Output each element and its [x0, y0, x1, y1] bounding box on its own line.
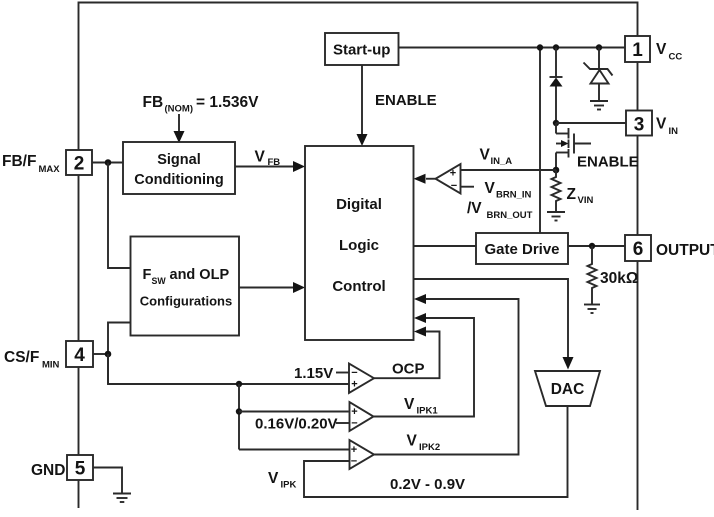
svg-text:Configurations: Configurations	[140, 294, 232, 309]
svg-text:Digital: Digital	[336, 196, 382, 213]
svg-text:ENABLE: ENABLE	[577, 154, 639, 171]
svg-text:IPK1: IPK1	[417, 406, 439, 417]
svg-text:OCP: OCP	[392, 361, 425, 378]
svg-text:6: 6	[633, 239, 644, 260]
svg-text:1.15V: 1.15V	[294, 365, 333, 382]
node: output junction dot	[589, 243, 595, 249]
svg-text:Logic: Logic	[339, 237, 379, 254]
wire: V_FB arrow to DLC	[235, 161, 305, 172]
label VIN	[656, 116, 678, 138]
wire: VCC rail down to Gate Drive	[539, 48, 541, 234]
svg-text:Z: Z	[567, 186, 577, 203]
box Start-up	[325, 33, 399, 65]
node: CS branch dot 1	[236, 381, 242, 387]
box Signal Conditioning	[123, 142, 235, 194]
label VCC	[656, 41, 682, 63]
resistor 30k	[588, 246, 597, 305]
label V_BRN_IN	[485, 180, 532, 201]
svg-text:/V: /V	[467, 200, 482, 217]
node: FB junction dot	[105, 159, 112, 166]
node: junction dot comparator input / ZVIN	[553, 167, 560, 174]
svg-text:0.2V - 0.9V: 0.2V - 0.9V	[390, 476, 465, 493]
resistor ZVIN	[552, 170, 561, 212]
label ZVIN	[567, 186, 594, 206]
svg-text:V: V	[404, 396, 415, 413]
wire: DLC to Gate Drive	[414, 245, 477, 247]
svg-text:+: +	[351, 378, 357, 390]
svg-text:Start-up: Start-up	[333, 42, 391, 59]
svg-text:V: V	[656, 41, 667, 58]
op-amp U5 IPK2 comparator	[350, 440, 375, 469]
svg-text:V: V	[485, 180, 496, 197]
svg-text:FB: FB	[268, 157, 281, 168]
label FB(NOM) = 1.536V	[143, 94, 260, 115]
svg-text:IPK2: IPK2	[419, 442, 440, 453]
svg-text:IN: IN	[669, 126, 679, 137]
wire: IPK2 output to DLC	[374, 294, 519, 455]
wire: Start-up output to pin 1 VCC	[399, 47, 626, 49]
svg-text:3: 3	[634, 114, 645, 135]
wire: IPK1 output to DLC	[374, 313, 475, 417]
pin 1 box	[625, 36, 650, 62]
label FB/FMAX	[2, 153, 60, 175]
ground for 30k resistor	[584, 305, 600, 314]
svg-text:Conditioning: Conditioning	[134, 172, 223, 188]
label V_IPK1	[404, 396, 438, 417]
svg-text:and OLP: and OLP	[170, 267, 230, 283]
DAC converter	[535, 371, 600, 406]
wire: pin5 to ground	[93, 468, 122, 494]
svg-text:V: V	[407, 433, 418, 450]
svg-text:1: 1	[632, 40, 643, 61]
wire: OCP output to DLC	[374, 327, 440, 379]
box Fsw and OLP Configurations	[131, 237, 240, 336]
wire: DAC output to V_IPK2 comparator	[304, 406, 568, 497]
wire: pin4 to CS node	[93, 353, 108, 355]
op-amp U3 OCP comparator	[336, 364, 374, 394]
label V_IPK	[268, 470, 296, 491]
wire: comparator + input	[461, 169, 557, 171]
svg-text:CC: CC	[669, 52, 683, 63]
wire: VIN node to pin 3	[556, 122, 626, 124]
pin 3 box	[626, 111, 652, 136]
svg-text:(NOM): (NOM)	[165, 104, 194, 115]
op-amp U4 IPK1 comparator	[336, 402, 374, 431]
svg-text:V: V	[268, 470, 279, 487]
ground for GND pin	[113, 494, 131, 503]
svg-text:Gate Drive: Gate Drive	[484, 241, 559, 258]
svg-text:−: −	[351, 456, 357, 468]
svg-text:ENABLE: ENABLE	[375, 92, 437, 109]
svg-text:FB/F: FB/F	[2, 153, 36, 170]
wire: pin2 to Signal Conditioning	[92, 162, 123, 164]
pin 5 box	[67, 455, 93, 480]
svg-text:IN_A: IN_A	[491, 156, 513, 167]
svg-text:V: V	[480, 147, 491, 164]
wire: FB(NOM) arrow into Signal Conditioning	[174, 114, 185, 143]
diode D1 between VCC wire and VIN node	[550, 48, 563, 124]
label V_FB	[255, 149, 281, 169]
svg-text:2: 2	[74, 153, 85, 174]
wire: CS branch down	[238, 384, 240, 450]
svg-text:+: +	[351, 444, 357, 456]
op-amp U6 brown-out comparator	[414, 164, 475, 194]
box Digital Logic Control	[305, 146, 414, 340]
svg-text:Signal: Signal	[157, 152, 201, 168]
label V_IN_A	[480, 147, 513, 168]
svg-text:IPK: IPK	[281, 480, 297, 491]
svg-text:−: −	[351, 367, 357, 379]
label V_IPK2	[407, 433, 441, 454]
node: VIN junction dot	[553, 120, 559, 126]
svg-text:CS/F: CS/F	[4, 349, 39, 366]
box Gate Drive	[476, 233, 568, 264]
svg-text:30kΩ: 30kΩ	[600, 270, 638, 287]
IC boundary rectangle	[79, 3, 638, 511]
svg-text:0.16V/0.20V: 0.16V/0.20V	[255, 416, 338, 433]
svg-text:MAX: MAX	[39, 164, 61, 175]
label /V_BRN_OUT	[467, 200, 533, 221]
svg-text:OUTPUT: OUTPUT	[656, 242, 714, 259]
wire: Fsw box lower-left to CS node	[108, 323, 131, 385]
node: CS junction dot	[105, 351, 112, 358]
transistor Q1 MOSFET	[556, 123, 591, 170]
wire: branch to IPK2 + input	[239, 449, 350, 451]
zener diode D2 with ground	[584, 48, 613, 102]
node: CS branch dot 2	[236, 408, 242, 414]
node: junction dot VCC rail	[537, 44, 543, 50]
svg-text:Control: Control	[332, 278, 385, 295]
svg-text:+: +	[450, 167, 456, 179]
svg-text:VIN: VIN	[578, 195, 594, 206]
svg-text:= 1.536V: = 1.536V	[196, 94, 259, 111]
svg-text:DAC: DAC	[551, 381, 585, 398]
svg-text:BRN_OUT: BRN_OUT	[487, 210, 533, 221]
label CS/FMIN	[4, 349, 60, 371]
wire: Gate Drive to pin 6	[568, 245, 625, 247]
svg-text:FB: FB	[143, 94, 164, 111]
svg-text:V: V	[656, 116, 667, 133]
ground for ZVIN	[547, 212, 565, 221]
svg-text:SW: SW	[152, 276, 167, 286]
svg-text:V: V	[255, 149, 266, 166]
wire: branch to IPK1 + input	[239, 411, 349, 413]
node: junction dot zener branch	[596, 44, 602, 50]
svg-text:−: −	[351, 418, 357, 430]
svg-text:−: −	[451, 180, 457, 192]
svg-text:F: F	[143, 267, 152, 283]
wire: Fsw output arrow to DLC	[239, 282, 305, 293]
node: junction dot diode branch	[553, 44, 559, 50]
svg-text:GND: GND	[31, 462, 65, 479]
ground for zener	[590, 101, 608, 110]
svg-text:4: 4	[74, 345, 85, 366]
wire: ENABLE arrow Start-up to DLC	[357, 65, 368, 146]
pin 4 box	[66, 341, 93, 367]
svg-text:BRN_IN: BRN_IN	[496, 190, 532, 201]
wire: CS node to OCP + input	[108, 354, 349, 384]
wire: DLC to DAC arrow	[414, 279, 574, 370]
svg-text:5: 5	[75, 458, 86, 479]
pin 2 box	[66, 150, 92, 175]
pin 6 box	[625, 235, 651, 261]
svg-text:+: +	[351, 406, 357, 418]
svg-text:MIN: MIN	[42, 360, 60, 371]
wire: FB node down to Fsw box	[108, 163, 131, 269]
